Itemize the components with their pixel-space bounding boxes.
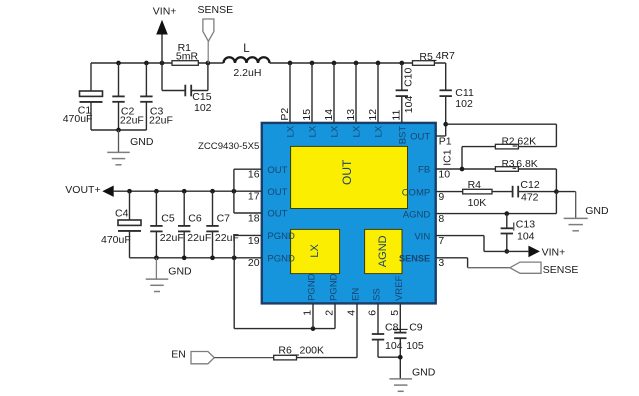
label VIN+ (top)	[153, 6, 177, 18]
svg-text:R6: R6	[278, 345, 292, 357]
capacitor C4 (polarized 470uF)	[118, 191, 141, 258]
wire VIN pin 7 net	[436, 236, 529, 252]
wire AGND pin 8 net	[436, 211, 557, 216]
resistor R2 62K (feedback upper)	[462, 144, 556, 169]
svg-text:472: 472	[521, 192, 539, 204]
resistor R1 5mR (sense resistor)	[172, 61, 198, 66]
label C11 102	[455, 87, 474, 110]
capacitor C10 104 (BST)	[396, 63, 408, 123]
pin numbers 1 2 4 6 5 (bottom, rotated)	[302, 310, 401, 316]
pin numbers 16 17 18 19 20 (left)	[248, 169, 260, 270]
svg-text:LX: LX	[374, 125, 385, 137]
resistor R5 4R7 (snubber)	[413, 61, 435, 66]
label 104 (C10, rotated)	[403, 96, 415, 114]
svg-text:10: 10	[438, 168, 450, 180]
svg-text:10K: 10K	[468, 197, 487, 209]
svg-text:62K: 62K	[517, 136, 536, 148]
svg-text:22uF: 22uF	[149, 114, 173, 126]
pin number P1 (right)	[439, 135, 452, 147]
svg-text:4R7: 4R7	[436, 50, 455, 62]
svg-text:GND: GND	[585, 205, 609, 217]
svg-text:5mR: 5mR	[176, 51, 199, 63]
capacitor C7 22uF	[206, 191, 218, 258]
power flag VOUT+ (left arrow)	[102, 186, 113, 197]
svg-text:15: 15	[301, 109, 313, 121]
pin numbers P2 15 14 13 12 11 (top, rotated)	[279, 108, 403, 121]
capacitor C2 22uF	[112, 63, 124, 130]
svg-text:SENSE: SENSE	[543, 264, 579, 276]
node COMP/AGND junction	[554, 189, 559, 213]
IC value label ZCC9430-5X5	[198, 141, 259, 152]
svg-text:VIN+: VIN+	[153, 6, 177, 18]
IC internal pad AGND (yellow block)	[365, 229, 402, 273]
wire COMP pin 9 net	[436, 191, 463, 193]
svg-text:C4: C4	[115, 207, 129, 219]
svg-text:BST: BST	[397, 126, 408, 145]
svg-text:12: 12	[367, 109, 379, 121]
capacitor C5 22uF	[150, 191, 162, 258]
svg-text:LX: LX	[286, 125, 297, 137]
port SENSE (top flag)	[203, 19, 214, 63]
label C15 102	[192, 91, 211, 114]
label SENSE (right)	[543, 264, 579, 276]
svg-text:LX: LX	[352, 125, 363, 137]
svg-text:104: 104	[517, 230, 535, 242]
label C7 22uF	[215, 213, 239, 244]
svg-text:PGND: PGND	[267, 254, 295, 265]
svg-text:4: 4	[346, 310, 358, 316]
label C9 105	[406, 322, 424, 352]
IC internal pad LX (yellow block)	[291, 229, 340, 273]
svg-text:470uF: 470uF	[101, 234, 131, 246]
svg-text:C15: C15	[192, 91, 211, 103]
label GND (right)	[585, 205, 609, 217]
svg-text:LX: LX	[308, 125, 319, 137]
svg-text:C10: C10	[403, 67, 415, 86]
label GND (output)	[168, 265, 192, 277]
svg-text:LX: LX	[330, 125, 341, 137]
svg-text:6.8K: 6.8K	[516, 158, 538, 170]
svg-text:IC1: IC1	[442, 149, 454, 166]
label R5 4R7	[419, 50, 455, 63]
svg-text:22uF: 22uF	[160, 232, 184, 244]
wire to right ground	[556, 192, 575, 219]
label C8 104	[385, 322, 408, 352]
wire SENSE pin 3 net	[436, 258, 510, 268]
svg-text:PGND: PGND	[329, 273, 340, 301]
svg-text:C12: C12	[520, 179, 539, 191]
label L 2.2uH	[233, 43, 261, 79]
ground symbol (input)	[107, 130, 130, 165]
label C12 472	[520, 179, 539, 204]
svg-text:22uF: 22uF	[215, 232, 239, 244]
inductor L 2.2uH	[224, 57, 270, 63]
op-amp U1 IC body ZCC9430-5X5 package outline	[262, 123, 436, 304]
svg-text:470uF: 470uF	[63, 113, 93, 125]
port SENSE (right flag)	[510, 262, 541, 273]
svg-text:104: 104	[403, 96, 415, 114]
resistor R4 10K (compensation)	[463, 189, 513, 194]
ground symbol (output)	[146, 258, 169, 292]
svg-text:22uF: 22uF	[187, 232, 211, 244]
svg-text:GND: GND	[168, 265, 192, 277]
svg-text:VREF: VREF	[394, 275, 405, 301]
svg-text:C5: C5	[161, 213, 175, 225]
resistor R3 6.8K (feedback lower)	[495, 167, 556, 192]
label C10 (rotated)	[403, 67, 415, 86]
svg-text:OUT: OUT	[267, 209, 287, 220]
label R2 62K	[502, 136, 536, 148]
svg-text:22uF: 22uF	[120, 114, 144, 126]
capacitor C15 102 (across R1)	[162, 63, 208, 96]
label C3 22uF	[149, 105, 173, 126]
svg-text:2.2uH: 2.2uH	[233, 67, 261, 79]
IC top pin name BST	[397, 126, 408, 145]
svg-text:17: 17	[248, 191, 260, 203]
node VIN bus junction dots	[116, 61, 404, 66]
resistor R6 200K	[274, 303, 357, 360]
wire VIN bus (input rail y=63)	[91, 62, 446, 64]
svg-text:1: 1	[302, 310, 314, 316]
label C13 104	[514, 219, 535, 243]
IC bottom pin names PGND PGND EN SS VREF	[307, 273, 405, 301]
svg-text:102: 102	[194, 102, 212, 114]
svg-text:LX: LX	[309, 244, 321, 258]
svg-text:OUT: OUT	[340, 159, 354, 185]
capacitor C3 22uF	[140, 63, 152, 130]
svg-text:13: 13	[345, 109, 357, 121]
capacitor C9 105 (VREF)	[394, 303, 406, 379]
svg-text:P1: P1	[439, 135, 452, 147]
pin numbers 10 9 8 7 3 (right)	[438, 168, 450, 269]
wire pins 16 17 18 tie (OUT)	[234, 169, 262, 213]
wires top pins P2 15 14 13 12 to LX bus	[290, 63, 378, 123]
svg-text:R5: R5	[419, 51, 433, 63]
svg-text:8: 8	[438, 213, 444, 225]
svg-text:SENSE: SENSE	[399, 254, 430, 264]
svg-text:3: 3	[438, 257, 444, 269]
capacitor C6 22uF	[178, 191, 190, 258]
svg-text:EN: EN	[351, 288, 362, 301]
svg-text:14: 14	[323, 109, 335, 121]
IC left pin names OUT OUT OUT PGND PGND	[267, 165, 295, 265]
svg-text:C7: C7	[217, 213, 231, 225]
capacitor C8 104 (SS)	[372, 303, 401, 357]
svg-text:VIN+: VIN+	[542, 247, 566, 259]
svg-text:18: 18	[248, 212, 260, 224]
svg-text:C13: C13	[516, 219, 535, 231]
label C6 22uF	[187, 213, 211, 244]
label C2 22uF	[120, 105, 144, 126]
svg-text:OUT: OUT	[410, 132, 430, 143]
svg-text:20: 20	[248, 257, 260, 269]
wire VOUT bus	[114, 189, 262, 194]
capacitor C12 472 (compensation)	[513, 186, 557, 198]
label R6 200K	[278, 345, 324, 357]
capacitor C13 104	[501, 214, 513, 254]
wire FB pin 10 net	[436, 167, 496, 172]
IC right pin names OUT FB COMP AGND VIN SENSE	[399, 132, 430, 264]
wire output gnd bus	[130, 255, 262, 260]
port EN (left flag)	[191, 352, 214, 364]
svg-text:9: 9	[438, 191, 444, 203]
svg-text:ZCC9430-5X5: ZCC9430-5X5	[198, 141, 259, 152]
svg-text:5: 5	[389, 310, 401, 316]
label VOUT+	[65, 184, 100, 196]
capacitor C1 (polarized 470uF)	[80, 63, 103, 130]
label C4 470uF	[101, 207, 131, 245]
ground symbol (right)	[564, 218, 588, 230]
svg-text:6: 6	[367, 310, 379, 316]
label R1 5mR	[176, 42, 199, 63]
IC internal pad OUT (yellow block)	[291, 146, 408, 208]
svg-text:L: L	[243, 43, 250, 55]
svg-text:11: 11	[391, 110, 403, 121]
svg-text:VIN: VIN	[414, 231, 430, 242]
label SENSE (top)	[198, 4, 234, 16]
svg-text:R4: R4	[468, 179, 482, 191]
svg-text:PGND: PGND	[267, 231, 295, 242]
label GND (input)	[130, 136, 154, 148]
wire PGND down to pins 1 2	[234, 258, 335, 331]
svg-text:16: 16	[248, 169, 260, 181]
svg-text:PGND: PGND	[307, 273, 318, 301]
svg-text:GND: GND	[412, 366, 436, 378]
power flag VIN+ (top arrow)	[156, 20, 168, 63]
wire OUT P1 pin stub and feedback top rail	[436, 122, 557, 147]
svg-text:EN: EN	[171, 349, 186, 361]
svg-text:105: 105	[406, 340, 424, 352]
label C5 22uF	[160, 213, 184, 244]
svg-text:VOUT+: VOUT+	[65, 184, 100, 196]
svg-text:2: 2	[324, 310, 336, 316]
label GND (bottom)	[412, 366, 436, 378]
ground symbol (bottom)	[389, 379, 412, 391]
svg-text:P2: P2	[279, 108, 291, 121]
label VIN+ (right)	[542, 247, 566, 259]
svg-text:OUT: OUT	[267, 165, 287, 176]
svg-text:C6: C6	[188, 213, 202, 225]
label EN	[171, 349, 186, 361]
svg-text:C9: C9	[409, 322, 423, 334]
wire pin 19 tie (PGND)	[234, 235, 262, 257]
IC top pin names LX x5	[286, 125, 385, 137]
wire input gnd bus	[91, 128, 146, 133]
svg-text:AGND: AGND	[377, 235, 389, 267]
svg-text:7: 7	[438, 235, 444, 247]
svg-text:SS: SS	[372, 288, 383, 301]
label C1 470uF	[63, 104, 93, 125]
power flag VIN+ (right arrow)	[528, 246, 540, 258]
svg-text:19: 19	[248, 235, 260, 247]
IC reference designator IC1	[442, 149, 454, 166]
svg-text:200K: 200K	[300, 345, 325, 357]
svg-text:FB: FB	[418, 165, 430, 176]
wire EN net	[214, 357, 273, 359]
svg-text:SENSE: SENSE	[198, 4, 234, 16]
svg-text:102: 102	[455, 98, 473, 110]
svg-text:OUT: OUT	[267, 187, 287, 198]
svg-text:COMP: COMP	[402, 187, 431, 198]
svg-text:GND: GND	[130, 136, 154, 148]
label R4 10K	[468, 179, 487, 209]
capacitor C11 102 (snubber)	[440, 63, 452, 136]
label R3 6.8K	[502, 158, 538, 170]
svg-text:AGND: AGND	[403, 209, 431, 220]
